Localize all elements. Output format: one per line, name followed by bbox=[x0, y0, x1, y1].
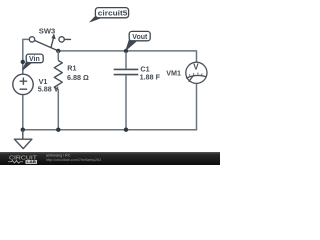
flag Vout bbox=[126, 31, 151, 50]
node C1 bottom dot bbox=[124, 128, 128, 132]
svg-text:5.88 V: 5.88 V bbox=[38, 84, 59, 93]
svg-text:circuit5: circuit5 bbox=[98, 9, 128, 18]
node R1 bottom dot bbox=[56, 128, 60, 132]
svg-text:SW3: SW3 bbox=[39, 27, 56, 36]
voltage source V1 bbox=[13, 74, 33, 94]
capacitor C1 plates bbox=[114, 69, 139, 74]
node ground junction dot bbox=[21, 128, 25, 132]
wire left rail: switch left terminal to corner down to V1 top bbox=[23, 39, 30, 74]
svg-text:V: V bbox=[193, 63, 199, 72]
flag Vin bbox=[22, 54, 43, 70]
svg-text:Vin: Vin bbox=[29, 56, 40, 63]
svg-text:6.88 Ω: 6.88 Ω bbox=[67, 73, 89, 82]
switch SW3 bbox=[29, 34, 70, 51]
svg-text:VM1: VM1 bbox=[166, 69, 181, 78]
node Vin junction dot bbox=[21, 60, 25, 64]
wire voltmeter bottom lead bbox=[196, 83, 198, 129]
node A junction dot bbox=[56, 49, 60, 53]
svg-text:R1: R1 bbox=[67, 64, 76, 73]
svg-text:1.88 F: 1.88 F bbox=[140, 73, 161, 82]
node Vout junction dot bbox=[124, 49, 128, 53]
voltmeter VM1 bbox=[186, 62, 207, 83]
svg-text:Vout: Vout bbox=[132, 34, 148, 41]
svg-text:http://circuitlab.com/7bn9arfs: http://circuitlab.com/7bn9arfsy263 bbox=[46, 158, 101, 162]
wire bottom rail bbox=[23, 129, 197, 131]
logo CircuitLab bbox=[8, 155, 37, 164]
resistor R1 bbox=[57, 51, 59, 130]
svg-text:ambwang / RC: ambwang / RC bbox=[46, 153, 71, 157]
svg-text:LAB: LAB bbox=[27, 159, 37, 164]
wire V1 bottom to bottom rail bbox=[22, 95, 24, 130]
wire top rail from node A to voltmeter corner bbox=[58, 51, 196, 62]
flag circuit5 (title) bbox=[90, 8, 129, 23]
ground bbox=[14, 130, 32, 149]
capacitor C1 leads bbox=[125, 52, 127, 130]
